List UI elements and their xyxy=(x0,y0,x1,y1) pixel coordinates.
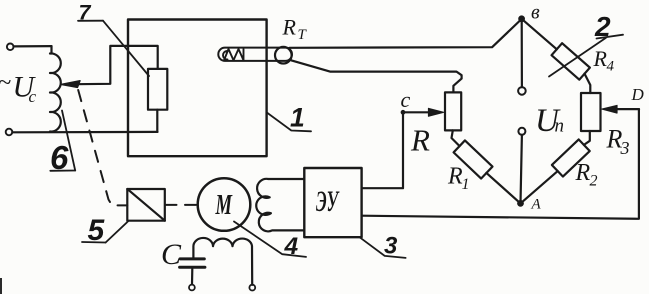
wiper arrow at c xyxy=(403,111,431,113)
wire B to R4 xyxy=(522,19,557,50)
box 1 furnace xyxy=(128,20,267,157)
svg-text:3: 3 xyxy=(620,138,630,158)
label 2 underline xyxy=(597,35,624,39)
svg-text:c: c xyxy=(29,87,37,106)
amplifier box 3 xyxy=(304,168,361,237)
wire RT bulb to rheostat R xyxy=(292,60,462,92)
rheostat R body xyxy=(445,92,461,130)
rectifier diagonal xyxy=(127,189,165,221)
node B xyxy=(519,16,525,22)
label 6 underline xyxy=(50,170,75,172)
wire R3 to R2 xyxy=(584,131,590,145)
svg-text:A: A xyxy=(531,197,542,213)
transformer winding 6 xyxy=(50,46,61,131)
lead resistor 7 bottom xyxy=(156,110,158,132)
rectifier box 5 xyxy=(127,189,165,221)
wiper arrow at D xyxy=(616,108,639,110)
output terminal left xyxy=(189,285,195,291)
output terminal right xyxy=(249,285,255,291)
capacitor C bottom plate xyxy=(180,266,205,269)
coupling coil motor to amplifier xyxy=(256,179,304,232)
node A xyxy=(518,201,524,207)
wire top input to coil xyxy=(14,45,52,48)
capacitor C top plate xyxy=(180,257,204,260)
svg-text:R: R xyxy=(575,160,591,186)
dashed link rectifier 5 to motor xyxy=(166,204,197,206)
wire wiper to resistor 7 xyxy=(76,46,158,84)
thermo bulb circle xyxy=(275,47,292,64)
label 5 underline xyxy=(82,241,106,244)
Un top terminal xyxy=(518,87,526,95)
wire R2 to node A xyxy=(521,171,558,203)
label 6 pointer xyxy=(62,111,75,171)
lead capacitor to terminal xyxy=(191,269,194,285)
wire bottom input to resistor 7 lead xyxy=(12,131,157,134)
label 2 pointer xyxy=(549,38,606,77)
terminal input top xyxy=(7,44,14,51)
svg-text:в: в xyxy=(531,2,540,24)
resistor R4 xyxy=(552,43,590,79)
tap arrow wiper xyxy=(61,81,80,88)
dashed link tap to rectifier 5 xyxy=(78,90,127,205)
label 3 pointer xyxy=(360,237,406,258)
svg-text:R: R xyxy=(282,15,297,40)
resistor 7 xyxy=(148,69,167,110)
heater RT stadium body xyxy=(218,48,292,61)
wire node B to Un top xyxy=(521,19,523,87)
svg-text:М: М xyxy=(215,189,233,221)
label 1 pointer xyxy=(267,113,311,132)
wire R4 to R3 xyxy=(585,74,591,93)
svg-text:R: R xyxy=(593,46,608,71)
svg-text:1: 1 xyxy=(462,176,470,193)
wire Un bottom to node A xyxy=(521,135,522,203)
resistor R3 xyxy=(581,93,601,131)
svg-text:4: 4 xyxy=(607,59,615,75)
svg-text:D: D xyxy=(631,85,645,104)
motor phase winding xyxy=(193,238,252,285)
svg-text:1: 1 xyxy=(290,103,305,133)
svg-text:~: ~ xyxy=(0,70,11,96)
resistor R2 xyxy=(552,139,590,176)
heater winding zigzag xyxy=(223,49,244,60)
label 7 underline xyxy=(78,20,103,22)
wire RT to node B xyxy=(290,19,522,48)
svg-text:п: п xyxy=(555,116,565,137)
label 4 pointer xyxy=(234,222,306,257)
wire c to amplifier xyxy=(362,112,403,188)
wire R1 to rheostat R xyxy=(452,130,460,146)
svg-text:c: c xyxy=(401,87,411,112)
svg-text:2: 2 xyxy=(590,173,598,190)
svg-text:C: C xyxy=(161,238,182,271)
label 5 pointer xyxy=(106,221,129,243)
label 7 pointer xyxy=(103,21,149,76)
Un bottom terminal xyxy=(518,128,525,135)
terminal input bottom xyxy=(6,129,13,136)
svg-text:R: R xyxy=(410,123,430,158)
svg-text:ЭУ: ЭУ xyxy=(316,185,340,218)
node c xyxy=(401,110,405,114)
resistor R1 xyxy=(454,140,493,178)
svg-text:T: T xyxy=(298,27,308,43)
wire amplifier output to D xyxy=(362,109,639,219)
wire node A to R1 xyxy=(486,173,520,204)
motor M xyxy=(198,178,251,231)
page edge mark xyxy=(0,278,2,294)
